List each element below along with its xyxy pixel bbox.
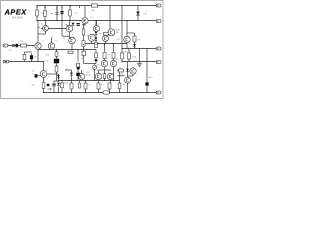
svg-text:C9: C9 xyxy=(124,41,126,44)
svg-text:NFB: NFB xyxy=(124,51,129,54)
svg-text:-65V: -65V xyxy=(148,76,153,79)
svg-text:10R: 10R xyxy=(137,39,141,42)
svg-text:in: in xyxy=(32,73,34,76)
svg-text:1M: 1M xyxy=(34,56,37,59)
svg-text:NJW: NJW xyxy=(96,69,100,72)
svg-text:NJW: NJW xyxy=(108,69,112,72)
svg-text:AX300: AX300 xyxy=(12,16,23,20)
svg-text:T12: T12 xyxy=(120,73,123,76)
svg-text:A: A xyxy=(39,27,41,30)
svg-text:2SA: 2SA xyxy=(117,38,121,41)
svg-text:1k: 1k xyxy=(119,66,121,69)
